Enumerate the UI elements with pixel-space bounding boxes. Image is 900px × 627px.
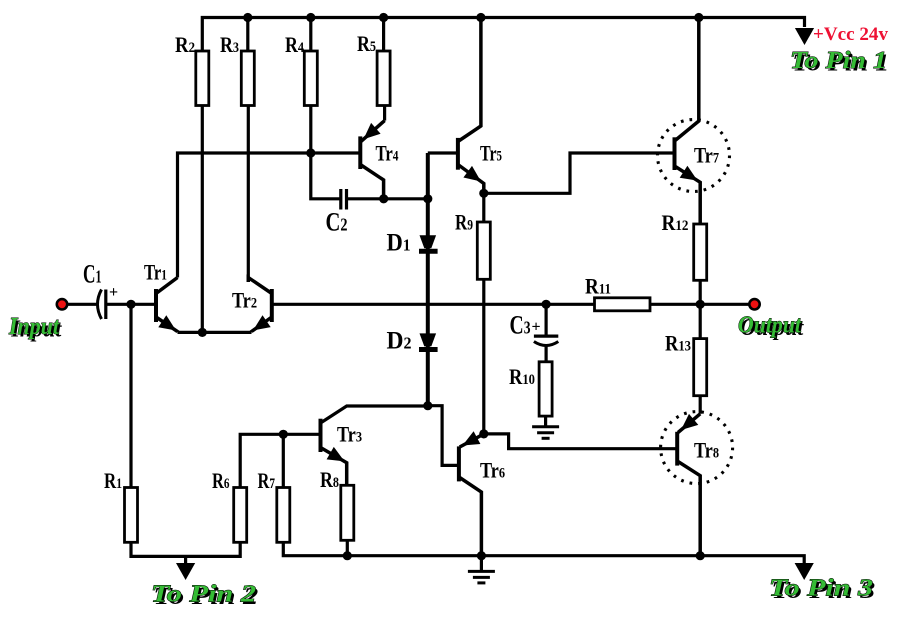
transistor Tr1 emitter arrow (NPN) — [158, 315, 176, 330]
junction rail-R3 — [243, 13, 252, 22]
label R2 — [175, 32, 195, 57]
label To Pin 1 — [790, 48, 889, 76]
wire R5 top — [382, 18, 385, 52]
output terminal — [749, 299, 759, 309]
junction R8/ground bus — [343, 551, 352, 560]
junction rail-Tr5-collector — [476, 13, 485, 22]
wire R10 to ground — [544, 416, 547, 427]
label D1 — [387, 230, 411, 257]
transistor Tr6 emitter arrow (PNP) — [463, 431, 481, 445]
transistor Tr7 emitter — [675, 166, 701, 224]
capacitor C3 — [534, 336, 558, 345]
wire output node to R13 — [699, 304, 702, 338]
transistor Tr1 collector — [156, 278, 178, 294]
svg-text:Output: Output — [738, 313, 802, 339]
junction Tr6 collector/ground bus — [477, 551, 486, 560]
transistor Tr8 collector — [677, 461, 700, 556]
transistor Tr3 emitter — [321, 448, 347, 486]
wire C3 top — [544, 304, 547, 336]
junction D2/Tr3 collector node — [423, 401, 432, 410]
junction Tr4 collector/C2 — [379, 194, 388, 203]
wire Tr5 emitter to Tr7 base — [484, 153, 675, 193]
wire Tr6 emitter node to Tr8 base — [484, 434, 677, 449]
label R6 — [212, 468, 230, 493]
transistor Tr2 base bar — [270, 289, 274, 322]
label C3 plus — [532, 319, 541, 336]
transistor Tr7 collector — [675, 18, 699, 142]
label Tr3 — [337, 422, 362, 447]
transistor Tr5 emitter — [458, 165, 484, 194]
wire R11 to output node — [650, 303, 749, 306]
wire R7 top — [282, 434, 285, 487]
wire diode chain — [426, 153, 430, 406]
label R5 — [357, 31, 376, 56]
transistor Tr5 emitter arrow (NPN) — [463, 166, 481, 182]
transistor Tr2 emitter — [252, 317, 272, 332]
label To Pin 2 — [151, 582, 258, 610]
wire Tr5 base — [428, 151, 458, 154]
label Tr2 — [232, 288, 257, 313]
transistor Tr5 base bar — [456, 138, 460, 170]
resistor R12 — [694, 224, 707, 280]
label R7 — [258, 468, 276, 493]
junction C2/diode chain — [423, 194, 432, 203]
label R1 — [104, 468, 122, 493]
svg-text:To Pin 2: To Pin 2 — [151, 582, 256, 608]
junction rail-R5 — [379, 13, 388, 22]
wire emitter bus — [178, 331, 252, 334]
label Input — [8, 314, 62, 342]
wire R3 top — [246, 18, 249, 52]
wire +Vcc top supply rail — [202, 18, 804, 52]
resistor R3 — [241, 51, 254, 106]
label Tr5 — [480, 141, 502, 166]
transistor Tr5 collector — [458, 18, 481, 142]
svg-text:To Pin 1: To Pin 1 — [790, 48, 887, 74]
wire node to Tr6 base — [428, 406, 459, 466]
junction node A (R4/Tr4 base) — [306, 148, 315, 157]
svg-text:+: + — [532, 319, 541, 336]
junction input node — [126, 300, 135, 309]
wire input node to R1 — [129, 304, 132, 487]
svg-text:To Pin 3: To Pin 3 — [769, 576, 873, 602]
label C2 — [326, 208, 348, 237]
transistor Tr8 outline (dashed circle) — [661, 412, 733, 484]
label Tr7 — [694, 143, 719, 168]
label Output — [738, 313, 804, 341]
ground under R10 — [532, 427, 559, 439]
resistor R4 — [304, 51, 317, 106]
label R9 — [455, 210, 473, 235]
label R11 — [585, 274, 611, 299]
wire R4 bottom to node A — [309, 106, 312, 154]
transistor Tr3 collector — [321, 406, 428, 423]
wire main bus Tr2 base to R11 — [272, 303, 595, 306]
transistor Tr4 emitter arrow (PNP) — [364, 123, 381, 139]
junction R2/emitter bus — [198, 328, 207, 337]
resistor R13 — [694, 339, 707, 396]
transistor Tr7 outline (dashed circle) — [658, 120, 730, 192]
label C1 — [83, 260, 102, 289]
svg-text:Input: Input — [8, 314, 60, 340]
transistor Tr6 emitter — [460, 434, 484, 447]
wire C1 to Tr1 base — [106, 303, 156, 306]
resistor R1 — [125, 488, 138, 543]
transistor Tr8 emitter — [678, 414, 700, 433]
svg-text:+: + — [109, 284, 118, 301]
wire To Pin 2 stem — [184, 556, 187, 564]
junction output node — [696, 300, 705, 309]
capacitor C2 — [341, 189, 347, 210]
wire R6 top to Tr3 base — [240, 434, 320, 487]
resistor R7 — [277, 488, 290, 543]
transistor Tr8 emitter arrow (PNP) — [681, 414, 698, 430]
power +Vcc arrow — [795, 28, 814, 45]
transistor Tr3 base bar — [319, 419, 323, 452]
wire R3 bottom to Tr2 collector — [247, 106, 250, 283]
wire Tr1 collector to Tr4 base — [178, 153, 360, 278]
wire node A to C2 — [311, 153, 340, 199]
resistor R8 — [341, 485, 354, 540]
resistor R5 — [377, 51, 390, 106]
transistor Tr2 collector — [248, 278, 271, 294]
junction R7/Tr3 base — [279, 430, 288, 439]
label R4 — [285, 32, 304, 57]
label C3 — [510, 311, 531, 340]
label R12 — [662, 210, 689, 235]
wire R8 bottom — [346, 540, 349, 555]
wire R12 bottom to output node — [699, 280, 702, 304]
junction Tr6 emitter node — [479, 429, 488, 438]
resistor R10 — [539, 362, 552, 416]
resistor R2 — [196, 51, 209, 106]
ground main symbol — [468, 556, 495, 583]
resistor R6 — [234, 488, 247, 543]
wire R13 to Tr8 emitter — [699, 396, 702, 414]
label R10 — [509, 364, 535, 389]
wire R5 bottom to Tr4 emitter — [383, 106, 386, 121]
label Tr8 — [694, 438, 719, 463]
junction Tr8 collector/ground bus — [696, 551, 705, 560]
transistor Tr4 collector — [360, 165, 383, 199]
power To Pin 2 arrow — [176, 563, 195, 580]
junction C3 node — [542, 300, 551, 309]
wire R4 top — [309, 18, 312, 52]
label D2 — [387, 328, 412, 355]
junction Tr5 emitter node — [479, 189, 488, 198]
label +Vcc 24v — [813, 24, 888, 45]
capacitor C1 — [98, 290, 106, 320]
transistor Tr6 base bar — [457, 446, 461, 481]
label R13 — [665, 331, 691, 356]
power To Pin 3 arrow — [795, 563, 814, 580]
transistor Tr7 emitter arrow (NPN) — [680, 166, 698, 181]
transistor Tr4 emitter — [361, 121, 385, 142]
transistor Tr3 emitter arrow (NPN) — [327, 447, 345, 462]
transistor Tr1 base bar — [154, 289, 158, 322]
transistor Tr6 collector — [459, 477, 482, 556]
diode D1 — [419, 235, 438, 251]
transistor Tr7 base bar — [673, 137, 677, 170]
label Tr4 — [376, 141, 399, 166]
wire R1 bottom — [131, 542, 240, 556]
junction rail-R4 — [306, 13, 315, 22]
wire C2 right to diode chain — [348, 197, 428, 200]
wire ground bus — [283, 542, 804, 563]
transistor Tr2 emitter arrow (NPN) — [253, 315, 271, 330]
transistor Tr1 emitter — [156, 317, 178, 332]
label R8 — [320, 467, 339, 492]
label Tr6 — [480, 458, 505, 483]
transistor Tr8 base bar — [675, 432, 679, 466]
label To Pin 3 — [769, 576, 875, 604]
label R3 — [220, 32, 239, 57]
wire R2 bottom to emitter bus — [201, 106, 204, 333]
wire R9 bottom to Tr6 emitter node — [482, 279, 485, 434]
transistor Tr4 base bar — [358, 136, 362, 169]
wire R9 top — [482, 193, 485, 222]
resistor R11 — [595, 298, 651, 311]
wire C3 to R10 — [544, 346, 547, 362]
label Tr1 — [144, 260, 167, 285]
diode D2 — [419, 333, 438, 349]
junction rail-Tr7-collector — [694, 13, 703, 22]
resistor R9 — [477, 222, 490, 279]
input terminal — [57, 299, 67, 309]
label C1 plus — [109, 284, 118, 301]
wire input to C1 — [68, 303, 97, 306]
svg-text:+Vcc 24v: +Vcc 24v — [813, 24, 888, 45]
